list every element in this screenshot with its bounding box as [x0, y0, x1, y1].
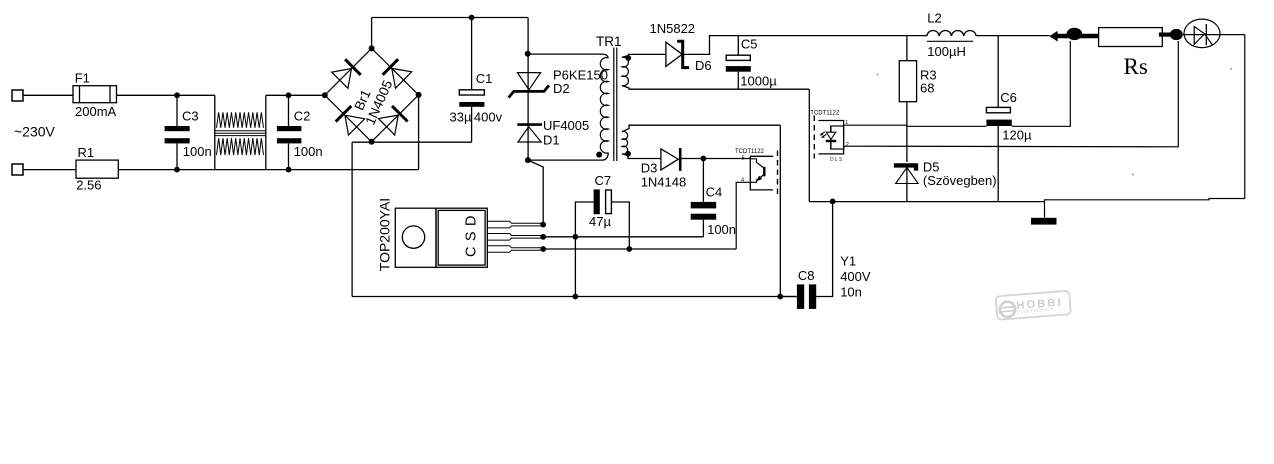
- svg-text:2.56: 2.56: [76, 178, 101, 193]
- wire aux bottom lead to D3: [622, 154, 661, 159]
- node bridge left vertex: [322, 92, 328, 98]
- node primary top corner: [525, 51, 531, 57]
- svg-text:TR1: TR1: [596, 34, 622, 49]
- wire source down to rail: [574, 237, 576, 297]
- opto dashed edge (transistor): [777, 151, 779, 196]
- diode D5: [894, 165, 918, 201]
- transformer core: [614, 48, 617, 162]
- thick sense bar left: [1057, 34, 1099, 39]
- svg-text:400V: 400V: [840, 269, 871, 284]
- wire drain slant down: [528, 160, 543, 225]
- svg-text:Y1: Y1: [840, 254, 856, 269]
- svg-text:33µ: 33µ: [450, 109, 472, 124]
- speck 3: [1132, 174, 1134, 176]
- svg-text:C5: C5: [741, 37, 758, 52]
- resistor R1: [76, 160, 118, 178]
- U1 mounting hole: [402, 226, 424, 248]
- pin S lead: [487, 234, 541, 241]
- wire opto pin2 to Rs right sense: [844, 41, 1179, 147]
- common-mode choke L1 right rail: [265, 95, 267, 169]
- bridge diode bottom-right (B to R): [379, 106, 408, 135]
- wire top rail corner down through clamp: [527, 18, 529, 161]
- opto phototransistor symbol: [750, 159, 764, 181]
- capacitor C4: [691, 159, 717, 237]
- capacitor C1: [459, 18, 484, 143]
- svg-text:47µ: 47µ: [589, 214, 611, 229]
- terminal J1 (top input pin): [12, 90, 23, 101]
- wire secondary ground rail: [809, 199, 1245, 202]
- wire drain node to primary bottom: [528, 153, 608, 160]
- node pin D: [540, 222, 546, 228]
- U1 body inner: [438, 210, 485, 265]
- svg-text:5: 5: [742, 156, 745, 162]
- svg-text:~230V: ~230V: [14, 124, 56, 140]
- primary winding: [600, 58, 608, 154]
- node pin S: [540, 234, 546, 240]
- svg-text:1N4148: 1N4148: [641, 175, 687, 190]
- U1 tab: [395, 208, 436, 267]
- arrow output plus: [1049, 31, 1057, 42]
- wire right edge down: [1244, 35, 1246, 199]
- wire D6 cathode step up: [683, 36, 927, 55]
- aux winding: [622, 131, 628, 154]
- node source line: [573, 234, 579, 240]
- svg-text:D6: D6: [695, 58, 712, 73]
- diode D1 UF4005: [517, 125, 542, 142]
- wire secondary bottom lead: [622, 86, 809, 90]
- opto LED symbol: [826, 126, 837, 149]
- wire bridge bottom vertex to C1 minus: [352, 141, 472, 143]
- svg-text:1N5822: 1N5822: [650, 21, 696, 36]
- node primary bottom phase dot: [596, 152, 602, 158]
- resistor R3: [899, 36, 916, 162]
- svg-text:L2: L2: [927, 11, 941, 26]
- choke winding top zigzag: [217, 112, 264, 128]
- opto LED inner box: [831, 126, 844, 149]
- svg-text:2: 2: [846, 142, 849, 148]
- node D3 out: [701, 156, 707, 162]
- svg-text:F1: F1: [75, 71, 90, 86]
- wire secondary top lead: [622, 54, 666, 57]
- wire bridge right vertex down to bottom rail: [418, 95, 420, 170]
- diode D6 1N5822: [666, 41, 689, 67]
- secondary winding top: [622, 57, 628, 85]
- speck 1: [877, 74, 879, 76]
- node C3 bottom: [174, 167, 180, 173]
- wire choke to C2 top: [266, 94, 325, 96]
- wire Rs to LED: [1183, 34, 1245, 36]
- svg-text:1000µ: 1000µ: [740, 74, 777, 89]
- ground: [1031, 218, 1057, 225]
- wire primary bottom rail: [352, 296, 796, 298]
- node source rail: [573, 294, 579, 300]
- TVS diode D2 P6KE150: [509, 73, 549, 98]
- bridge diode top-left (L to T): [332, 59, 361, 88]
- svg-text:100µH: 100µH: [927, 44, 966, 59]
- bridge diode top-right (R to T): [383, 59, 412, 88]
- svg-text:TOP200YAI: TOP200YAI: [377, 198, 393, 271]
- opto LED dashed edge: [813, 116, 815, 159]
- capacitor C7: [575, 189, 629, 249]
- svg-text:400v: 400v: [474, 109, 503, 124]
- wire DC- down left side: [351, 142, 353, 296]
- svg-text:D1: D1: [543, 133, 560, 148]
- svg-text:120µ: 120µ: [1002, 128, 1032, 143]
- svg-text:68: 68: [920, 81, 934, 96]
- capacitor C6: [986, 36, 1011, 201]
- watermark logo: [996, 291, 1071, 320]
- svg-text:C1: C1: [476, 71, 493, 86]
- ground stub: [1044, 202, 1046, 218]
- pin D lead: [487, 221, 541, 228]
- node bridge bottom vertex: [369, 139, 375, 145]
- wire opto emitter out: [736, 180, 757, 249]
- choke winding bottom zigzag: [217, 138, 264, 155]
- wire R1 to bottom rail: [118, 169, 418, 171]
- svg-text:Rs: Rs: [1124, 54, 1148, 79]
- svg-text:D3: D3: [641, 161, 658, 176]
- svg-text:C3: C3: [182, 109, 199, 124]
- svg-text:C8: C8: [798, 268, 815, 283]
- node drain: [525, 157, 531, 163]
- wire pin S to C4 bottom: [542, 236, 704, 238]
- node aux bottom phase dot: [625, 151, 631, 157]
- wire DC+ top rail: [372, 17, 528, 19]
- pin C lead: [487, 246, 541, 253]
- L2 base line: [927, 40, 973, 42]
- svg-text:(Szövegben): (Szövegben): [923, 173, 997, 188]
- bridge diode bottom-left (B to L): [336, 106, 365, 135]
- svg-text:D L S: D L S: [830, 157, 843, 163]
- svg-text:UF4005: UF4005: [543, 118, 589, 133]
- inductor L2: [927, 30, 976, 35]
- node C2 top: [286, 92, 292, 98]
- svg-text:100n: 100n: [294, 144, 323, 159]
- svg-text:100n: 100n: [183, 144, 212, 159]
- svg-text:C7: C7: [595, 173, 612, 188]
- sense dot right: [1170, 29, 1183, 40]
- wire pin C control line: [542, 248, 737, 250]
- node pin C: [540, 246, 546, 252]
- node aux rail junction: [777, 294, 783, 300]
- node bridge top vertex: [369, 45, 375, 51]
- wire F1 to node C3 top: [117, 94, 215, 96]
- wire output minus down: [808, 89, 810, 201]
- opto LED outer box: [818, 121, 843, 154]
- svg-text:C6: C6: [1000, 90, 1017, 105]
- wire C6 minus to Rs left sense: [1012, 41, 1071, 126]
- bridge Br1 diamond sides: [325, 48, 419, 141]
- node C2 bottom: [286, 167, 292, 173]
- opto LED arrows: [820, 132, 827, 138]
- svg-text:R1: R1: [78, 145, 95, 160]
- wire aux vertical down to primary rail: [779, 125, 781, 296]
- node C8 secondary rail: [830, 199, 836, 205]
- wire J1 to F1: [23, 94, 73, 96]
- LED indicator: [1184, 19, 1220, 48]
- svg-text:100n: 100n: [707, 222, 736, 237]
- capacitor C5: [726, 36, 751, 90]
- diode D3 1N4148: [661, 148, 750, 171]
- resistor Rs: [1099, 28, 1163, 47]
- common-mode choke L1 left rail: [214, 95, 216, 169]
- svg-text:D: D: [464, 216, 480, 226]
- wire primary top: [528, 54, 609, 58]
- svg-text:D2: D2: [553, 81, 570, 96]
- svg-text:10n: 10n: [840, 285, 862, 300]
- node C1 top rail: [469, 15, 475, 21]
- svg-text:C: C: [464, 246, 480, 256]
- svg-text:C4: C4: [706, 185, 723, 200]
- opto phototransistor box: [750, 156, 773, 190]
- fuse F1: [73, 86, 117, 103]
- capacitor C2: [277, 95, 302, 169]
- speck 2: [1230, 68, 1232, 70]
- wire L2 to arrow: [976, 35, 1050, 37]
- capacitor C3: [165, 95, 190, 169]
- svg-text:200mA: 200mA: [75, 104, 117, 119]
- svg-text:TCDT1122: TCDT1122: [735, 149, 765, 155]
- sense dot left: [1067, 28, 1083, 40]
- wire J2 to R1: [23, 169, 76, 171]
- node C3 top: [174, 92, 180, 98]
- wire opto pin1 to C6 minus: [844, 125, 987, 126]
- svg-text:S: S: [464, 231, 480, 241]
- svg-text:C2: C2: [294, 109, 311, 124]
- choke core lines: [215, 131, 267, 136]
- node secondary top phase dot: [625, 55, 631, 61]
- U1 body: [436, 208, 487, 267]
- node bridge right vertex: [416, 92, 422, 98]
- terminal J2 (bottom input pin): [12, 164, 23, 175]
- wire aux top lead: [622, 125, 780, 132]
- capacitor C8: [780, 201, 832, 309]
- node C7 control: [626, 246, 632, 252]
- wire bridge top vertex up to DC+ rail: [371, 18, 373, 49]
- thick sense bar right: [1159, 32, 1171, 36]
